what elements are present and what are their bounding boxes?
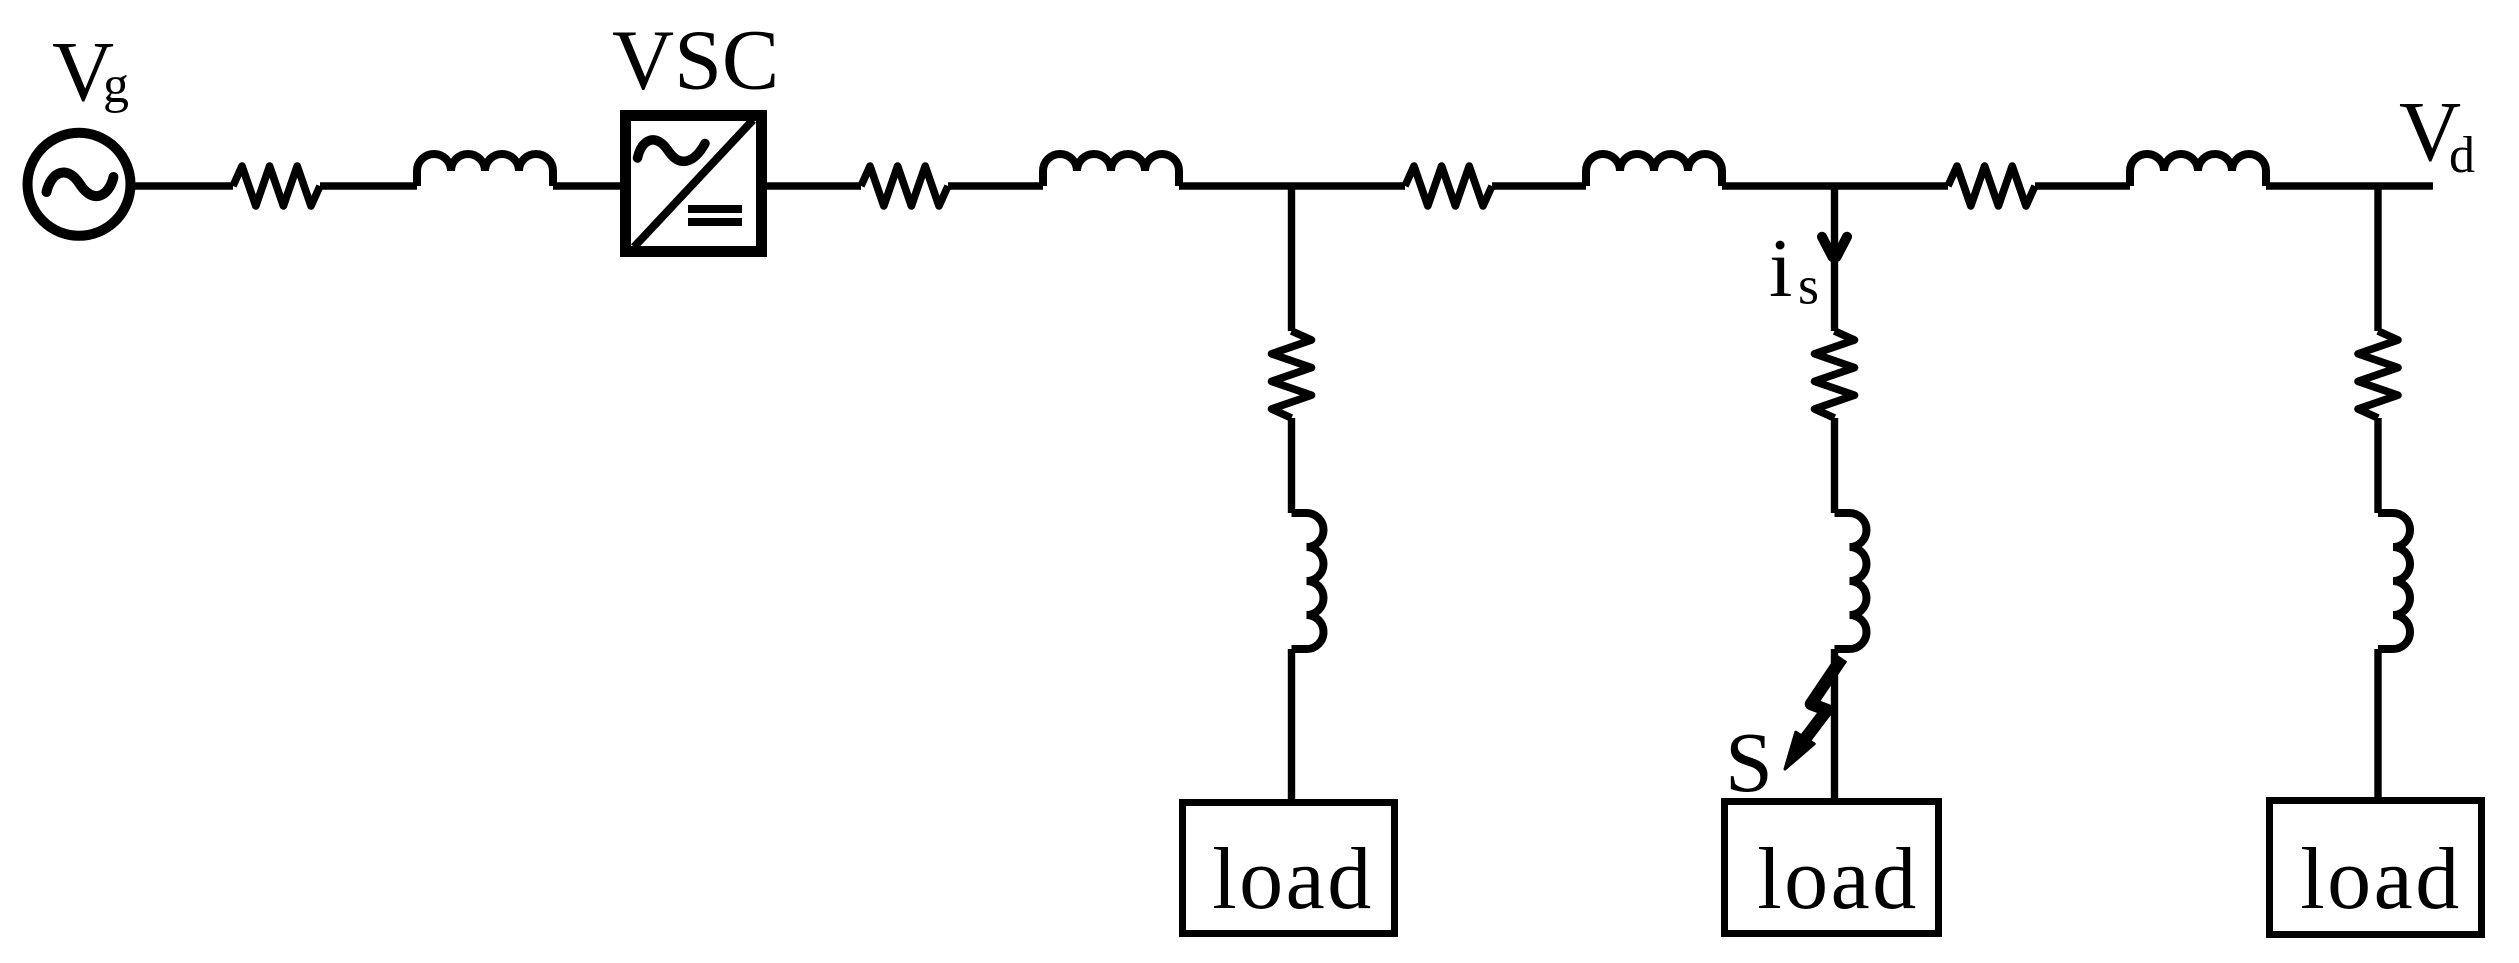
svg-text:i: i: [1769, 222, 1792, 315]
inductor L1: [1043, 154, 1179, 186]
branch1 wire: [1288, 418, 1295, 513]
svg-text:load: load: [1757, 831, 1919, 928]
svg-text:load: load: [1212, 831, 1374, 928]
resistor R2: [1405, 166, 1492, 206]
VSC diagonal: [634, 120, 753, 247]
VSC dc bars: [688, 209, 742, 222]
load box 2: [1725, 802, 1939, 934]
VSC ac sine: [638, 140, 706, 161]
svg-text:VSC: VSC: [612, 12, 779, 108]
wire Rg to Lg: [320, 182, 417, 189]
inductor L3: [2130, 154, 2266, 186]
svg-text:d: d: [2449, 127, 2475, 184]
node 2 junction wire: [1831, 186, 1838, 331]
load box 1: [1183, 803, 1395, 934]
inductor L2: [1586, 154, 1722, 186]
branch3 inductor: [2378, 513, 2410, 649]
wire R1 to L1: [948, 182, 1043, 189]
branch3 wire: [2374, 418, 2381, 513]
wire R3 to L3: [2035, 182, 2130, 189]
resistor R1: [861, 166, 948, 206]
load box 3: [2270, 801, 2482, 935]
converter VSC box: [626, 116, 762, 252]
inductor Lg: [417, 154, 553, 186]
current arrow is: [1822, 237, 1847, 257]
branch2 wire to load: [1831, 649, 1838, 801]
voltage source Vg: [28, 133, 131, 236]
branch1 inductor: [1292, 513, 1324, 649]
fault lightning arrow: [1805, 658, 1842, 739]
branch2 inductor: [1835, 513, 1867, 649]
wire R2 to L2: [1492, 182, 1586, 189]
branch1 wire to load: [1288, 649, 1295, 802]
wire Lg to VSC: [553, 182, 628, 189]
svg-text:S: S: [1725, 714, 1773, 810]
branch2 wire: [1831, 418, 1838, 513]
branch3 wire to load: [2374, 649, 2381, 800]
svg-text:s: s: [1798, 256, 1819, 316]
svg-text:g: g: [103, 57, 129, 114]
branch3 resistor: [2358, 331, 2398, 418]
resistor Rg: [233, 166, 320, 206]
svg-text:load: load: [2300, 831, 2462, 928]
wire VSC to R1: [763, 182, 861, 189]
resistor R3: [1948, 166, 2035, 206]
node 1 junction: [1288, 186, 1295, 331]
node Vd junction wire: [2374, 186, 2381, 331]
branch1 resistor: [1272, 331, 1312, 418]
branch2 resistor: [1815, 331, 1855, 418]
wire L1 to node1 to R2: [1179, 182, 1405, 189]
wire source to Rg: [130, 182, 233, 189]
wire L2 to node2 to R3: [1722, 182, 1948, 189]
wire L3 to node Vd: [2266, 182, 2433, 189]
